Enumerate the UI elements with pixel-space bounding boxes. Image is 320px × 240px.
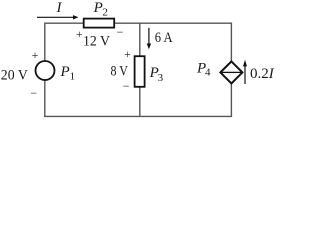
wire right edge upper: [230, 23, 232, 62]
current arrow I (top): [37, 16, 74, 18]
svg-text:2: 2: [102, 6, 108, 18]
wire top-right segment: [114, 22, 231, 24]
svg-text:+: +: [124, 47, 131, 61]
svg-text:20 V: 20 V: [1, 67, 28, 83]
resistor box P2: [84, 19, 115, 28]
current arrow 0.2I (up): [244, 66, 246, 85]
wire bottom edge: [44, 115, 232, 117]
svg-text:3: 3: [158, 72, 164, 84]
voltage source circle P1: [36, 61, 55, 80]
dependent source diamond P4: [220, 61, 242, 83]
svg-text:4: 4: [205, 67, 211, 79]
diamond internal line: [220, 71, 242, 73]
resistor box P3: [135, 56, 145, 87]
svg-text:6 A: 6 A: [155, 30, 173, 46]
svg-text:P: P: [93, 0, 103, 16]
wire middle branch upper: [139, 23, 141, 56]
current arrow 6 A: [148, 28, 150, 45]
svg-text:−: −: [30, 86, 37, 100]
svg-text:−: −: [117, 25, 124, 39]
wire middle branch lower: [139, 87, 141, 117]
svg-text:I: I: [56, 0, 63, 16]
svg-text:12 V: 12 V: [83, 34, 110, 50]
wire left edge upper: [44, 23, 46, 62]
svg-text:P: P: [60, 64, 70, 80]
wire top-left segment: [45, 22, 84, 24]
svg-text:1: 1: [70, 71, 76, 83]
svg-text:0.2I: 0.2I: [250, 66, 275, 82]
wire left edge lower: [44, 80, 46, 117]
svg-text:+: +: [32, 48, 39, 62]
wire right edge lower: [230, 83, 232, 116]
svg-text:−: −: [123, 79, 130, 93]
svg-text:+: +: [76, 27, 83, 41]
svg-text:8 V: 8 V: [111, 63, 129, 79]
